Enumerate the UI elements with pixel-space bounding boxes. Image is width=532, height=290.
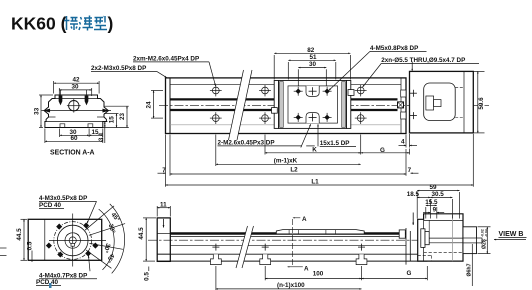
svg-text:L1: L1 [311,178,319,185]
svg-text:KK60 (: KK60 ( [11,14,67,34]
flange dim 44.5 [21,219,28,260]
svg-text:4-M5x0.8Px8 DP: 4-M5x0.8Px8 DP [370,45,418,52]
svg-text:(n-1)x100: (n-1)x100 [277,282,305,289]
plan break lines [229,70,253,140]
svg-text:4-M3x0.5Px8 DP: 4-M3x0.5Px8 DP [39,195,87,202]
section inner step lines [49,116,56,118]
section dimension 30 bottom [60,129,103,138]
T-slot foot 3 [356,254,367,264]
grease nipple left [272,108,278,114]
svg-text:44.5: 44.5 [138,227,145,240]
VIEW B label [494,231,527,240]
rail hole col4 top [355,85,367,97]
svg-text:): ) [108,14,114,34]
dim 51 [288,60,336,79]
plan view rail body [166,78,407,134]
carriage block [274,81,351,129]
svg-text:Ø28: Ø28 [482,239,488,249]
flange dim 0.5 [31,251,33,263]
svg-text:PCD 40: PCD 40 [39,202,62,209]
dim 44.5 side [143,218,156,261]
edge cut marks bottom left [0,248,7,256]
dim O28 [478,227,491,254]
svg-text:A: A [302,216,307,223]
left block down arrow [163,219,165,228]
svg-text:11: 11 [160,201,167,208]
section dimension 60 [45,129,103,144]
svg-text:15: 15 [108,116,115,124]
rail hole col1 top [210,85,222,97]
flange angle fan radial lines [85,204,125,274]
svg-text:2xm-M2.6x0.45Px4 DP: 2xm-M2.6x0.45Px4 DP [133,55,199,62]
dim G side [362,266,428,280]
foot center crosses [212,244,365,251]
label 4-M5x0.8Px8 DP [329,45,427,90]
end block (motor housing) [410,71,474,132]
section width line with wing arrowheads [42,110,112,112]
rail hole col1 bottom [210,112,222,124]
pilot boss [463,227,477,254]
svg-text:2-M2.6x0.45Px3 DP: 2-M2.6x0.45Px3 DP [218,139,275,146]
side view left block [157,218,170,262]
svg-text:(m-1)xK: (m-1)xK [274,158,298,165]
dim 59 [417,191,459,219]
svg-text:24: 24 [146,101,153,109]
rail hole col4 bottom [355,112,367,124]
rail hole col2 bottom [259,112,271,124]
title text KK60 [11,14,113,34]
svg-text:A: A [304,265,309,272]
section dimension 3.1 [103,122,108,144]
carriage bottom tab [306,113,319,124]
svg-text:Ø6h7: Ø6h7 [467,263,473,276]
section inner top plate line [55,98,98,100]
label 2xm-M2.6x0.45Px4 DP [133,55,216,85]
svg-text:44.5: 44.5 [16,228,23,241]
section dimension 15 right [104,114,119,128]
T-slot foot 2 [260,254,271,264]
svg-text:PCD 40: PCD 40 [36,279,59,286]
dim 0.5 side [148,267,150,272]
plan centerline [159,104,489,106]
carriage tap hole 4 [323,113,332,122]
plan ball screw thick bands [170,99,398,110]
svg-text:15.5: 15.5 [425,199,438,206]
dim K and G [265,135,410,155]
section bottom notches [60,124,65,128]
blue cut mark [49,283,52,288]
T-slot foot 1 [211,254,222,264]
svg-text:2x2-M3x0.5Px8 DP: 2x2-M3x0.5Px8 DP [91,65,146,72]
svg-text:18.5: 18.5 [407,191,420,198]
section profile outline [44,95,108,128]
svg-text:G: G [380,147,385,154]
section dimension 33 [39,95,53,128]
dim (m-1)xK [216,135,361,167]
side view rail body lines [157,234,427,262]
svg-text:-0.04: -0.04 [484,229,488,237]
dim 4 gap [399,134,418,148]
svg-text:15x1.5 DP: 15x1.5 DP [320,140,350,147]
svg-text:VIEW B: VIEW B [499,231,524,238]
end block hidden dashes [455,87,464,117]
dim 100 [265,266,361,280]
flange end view rectangle [28,219,102,260]
flange circles [54,222,92,260]
svg-text:SECTION A-A: SECTION A-A [50,150,95,157]
label 2x2-M3x0.5Px8 DP [91,65,167,78]
svg-text:30.5: 30.5 [431,191,444,198]
dim 59.6 [473,71,484,132]
motor outline rounded [424,83,456,121]
svg-text:3.1: 3.1 [98,132,105,141]
side carriage [276,230,364,234]
carriage tap hole 3 [294,113,303,122]
svg-text:L2: L2 [290,166,298,173]
carriage top tab [306,86,319,97]
dims 18.5 and 30.5 [417,197,452,218]
down arrow on end block [411,62,413,71]
svg-text:33: 33 [34,107,41,115]
carriage tap hole 1 [294,87,303,96]
svg-text:100: 100 [313,270,324,277]
carriage tap hole 2 [323,87,332,96]
screw symbol right [85,96,88,105]
shaft lines through boss [463,238,482,243]
plan rail inner lines [170,85,401,125]
svg-text:15: 15 [91,129,99,136]
svg-text:30: 30 [309,61,317,68]
side break lines [236,226,254,268]
svg-text:4: 4 [401,139,405,146]
dim (n-1)x100 [216,266,362,290]
rail hole col2 top [259,85,271,97]
svg-text:7: 7 [408,167,412,174]
dim 15.5 [426,205,437,218]
svg-text:9: 9 [433,206,437,213]
dim 82 [274,53,350,79]
dim L1 [166,134,474,187]
carriage center crosses [309,87,317,121]
svg-text:30: 30 [71,84,79,91]
section line A-A [288,218,303,267]
shaft lines in bracket [429,238,463,243]
end block hole crosses [410,90,417,119]
bracket hidden dashes [418,253,463,262]
motor end cover small block [399,230,405,238]
side centerline [148,239,489,241]
section A-A view [42,95,112,128]
gray extension through bracket [452,214,454,261]
svg-text:0.5: 0.5 [144,272,151,281]
labels 2-M2.6 and 15x1.5 [218,124,357,147]
svg-text:59.6: 59.6 [478,97,485,110]
motor bracket side view [418,214,463,261]
svg-text:K: K [312,147,317,154]
section dimension 42 [54,81,100,94]
grease nipple right [348,90,354,96]
dim 24 left [151,91,163,119]
svg-text:2xn-Ø5.5 THRU,Ø9.5x4.7 DP: 2xn-Ø5.5 THRU,Ø9.5x4.7 DP [381,57,465,64]
bracket down arrow [412,213,414,226]
dim 9 [423,212,444,214]
section dimension 30 top [59,88,91,97]
label 2xn holes [363,57,479,87]
CJK glyph 準 [79,16,93,31]
svg-text:51: 51 [309,54,317,61]
label 4-M4 PCD40 [36,256,97,286]
dim 30 carriage [298,68,326,86]
flange bolt holes (diamonds) [46,223,98,257]
section dimension 23 right [103,106,129,127]
svg-text:G: G [407,270,412,277]
screw symbol left [59,96,62,105]
rail end screw tabs right [401,90,406,97]
CJK glyph 型 [94,16,107,30]
rail right end verticals [406,228,410,265]
dim L2 [158,135,419,176]
flange crosshairs [49,214,106,267]
label 4-M3 PCD40 [39,195,97,223]
svg-text:60: 60 [70,135,78,142]
CJK glyph 標 [64,16,78,30]
shaft end square with X [398,102,404,108]
coupling housing rects [421,229,425,248]
ball screw circle [69,101,79,111]
svg-text:23: 23 [119,113,126,121]
dim O6h7 [471,244,473,286]
svg-text:0.5: 0.5 [27,241,34,250]
dim 11 [157,206,170,217]
